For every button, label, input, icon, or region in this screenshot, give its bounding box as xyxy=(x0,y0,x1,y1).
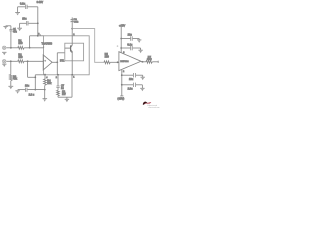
node junction xyxy=(121,74,123,76)
node junction xyxy=(37,22,39,24)
BTL inner box xyxy=(65,43,84,61)
node junction xyxy=(44,89,46,91)
node junction xyxy=(10,47,12,49)
wire xyxy=(6,60,17,62)
svg-text:1W: 1W xyxy=(62,93,66,96)
svg-text:100: 100 xyxy=(18,56,23,59)
stub ticks xyxy=(71,18,75,21)
terminal -V xyxy=(120,95,123,97)
node junction xyxy=(56,61,58,63)
wire xyxy=(17,7,19,13)
ground xyxy=(8,86,13,89)
terminal output xyxy=(157,61,159,63)
wire xyxy=(136,74,143,76)
wire xyxy=(110,61,119,63)
node junction xyxy=(29,47,31,49)
resistor R7 xyxy=(146,60,152,63)
wire xyxy=(133,38,140,40)
node junction pin xyxy=(71,74,73,76)
wire xyxy=(24,60,44,62)
wire bottom left link xyxy=(35,74,43,76)
node junction xyxy=(117,61,119,63)
svg-text:9-18V: 9-18V xyxy=(37,1,44,4)
svg-text:+15V: +15V xyxy=(119,24,125,28)
wire emitter riser xyxy=(71,52,73,75)
capacitor C3 47u vertical chain xyxy=(10,31,12,48)
node junction xyxy=(34,89,36,91)
node junction xyxy=(71,28,73,30)
wire output xyxy=(52,61,57,63)
ground xyxy=(2,64,6,67)
resistor R5 100 xyxy=(104,61,110,64)
wire xyxy=(122,84,133,86)
wire xyxy=(6,47,17,49)
svg-text:2R2: 2R2 xyxy=(147,58,152,61)
svg-text:10u: 10u xyxy=(22,17,27,20)
wire V+ rail right xyxy=(120,27,122,53)
svg-text:2: 2 xyxy=(56,77,58,79)
wire xyxy=(24,47,43,49)
resistor R6 vertical xyxy=(57,88,59,91)
ground xyxy=(15,13,20,16)
pin tick xyxy=(43,60,45,61)
wire xyxy=(136,84,142,86)
transistor Q1 xyxy=(65,45,73,52)
svg-text:22u: 22u xyxy=(128,34,133,37)
svg-text:(-15V): (-15V) xyxy=(118,97,125,100)
ground xyxy=(140,85,144,92)
capacitor C5 22u xyxy=(131,36,133,41)
output pin chain: node dot xyxy=(57,74,59,76)
logo eleccircuit xyxy=(143,102,160,109)
resistor R1 100 xyxy=(18,46,24,49)
node junction xyxy=(10,60,12,62)
svg-text:3: 3 xyxy=(123,52,125,54)
svg-text:0.1u: 0.1u xyxy=(20,2,26,6)
pin 4 tick and wire xyxy=(44,74,46,75)
wire node y89.6 xyxy=(18,89,26,91)
ground xyxy=(65,97,69,102)
wire drop to input1 xyxy=(29,36,31,48)
node junction rail to box xyxy=(37,35,39,37)
wire xyxy=(152,61,158,63)
node junction xyxy=(120,47,122,49)
ground xyxy=(43,99,48,102)
svg-text:10u: 10u xyxy=(25,84,30,87)
svg-text:BUF634: BUF634 xyxy=(120,61,129,63)
wire zobel bottom xyxy=(57,96,59,97)
ground xyxy=(137,39,141,43)
capacitor C9 2.2u xyxy=(134,83,136,87)
svg-text:10u: 10u xyxy=(129,78,134,81)
input jack J1 xyxy=(2,46,5,49)
svg-text:BTL: BTL xyxy=(60,59,65,62)
wire xyxy=(28,6,38,8)
capacitor C7 xyxy=(56,86,59,88)
op-amp U1a triangle xyxy=(43,55,52,70)
resistor R2 100 xyxy=(18,60,24,63)
svg-text:10k: 10k xyxy=(47,82,52,85)
node junction xyxy=(44,74,46,76)
capacitor C6 0.1u xyxy=(131,46,133,51)
wire from path2 junction xyxy=(27,61,29,77)
wire xyxy=(133,47,141,49)
wire top link xyxy=(72,29,104,63)
capacitor C2 10u xyxy=(27,21,28,26)
node junction xyxy=(34,76,36,78)
wire to BTL block xyxy=(57,52,65,54)
wire xyxy=(20,22,27,24)
svg-text:OK2: OK2 xyxy=(74,21,79,23)
node junction xyxy=(120,38,122,40)
wire xyxy=(122,74,133,76)
ground xyxy=(138,48,142,53)
wire xyxy=(19,23,21,28)
ground xyxy=(141,75,145,80)
svg-text:100: 100 xyxy=(18,42,23,45)
op-amp U2 BUF634 triangle xyxy=(119,52,141,71)
node junction xyxy=(121,84,123,86)
svg-text:2: 2 xyxy=(123,71,125,73)
ground xyxy=(17,28,22,31)
capacitor C4 2.2u xyxy=(26,88,27,92)
pin 8 tick xyxy=(39,34,41,36)
wire V+ rail xyxy=(37,7,39,36)
wire output xyxy=(141,61,146,63)
wire collector riser / top stub xyxy=(71,17,73,45)
wire continue to ground xyxy=(44,90,46,99)
wire xyxy=(121,47,130,49)
resistor R4 10k xyxy=(44,75,46,79)
ground xyxy=(15,91,19,94)
node junction xyxy=(27,60,29,62)
input jack J2 xyxy=(2,60,5,63)
IC U1 box xyxy=(44,36,90,75)
capacitor C1 0.1u xyxy=(26,5,27,9)
wire xyxy=(18,6,26,8)
svg-text:TDA7056: TDA7056 xyxy=(42,43,53,46)
resistor R3 47k to ground xyxy=(10,61,12,74)
svg-text:2.2u: 2.2u xyxy=(128,88,133,91)
ground xyxy=(3,26,7,29)
wire xyxy=(121,38,130,40)
wire xyxy=(57,75,59,86)
svg-text:0.1u: 0.1u xyxy=(127,43,132,46)
svg-text:47k: 47k xyxy=(13,78,18,81)
wire top line left extension xyxy=(30,35,44,37)
capacitor C8 10u xyxy=(134,73,136,77)
svg-text:eleccircuit.com: eleccircuit.com xyxy=(148,106,160,109)
svg-text:1: 1 xyxy=(73,77,75,79)
svg-text:2.2 u: 2.2 u xyxy=(29,94,35,97)
wire feedback riser xyxy=(56,53,58,75)
pin tick xyxy=(43,46,45,47)
ground xyxy=(2,52,6,55)
svg-text:47u: 47u xyxy=(13,31,18,33)
svg-text:100: 100 xyxy=(105,56,110,59)
wire xyxy=(28,22,37,24)
wire V- drop xyxy=(121,70,123,96)
